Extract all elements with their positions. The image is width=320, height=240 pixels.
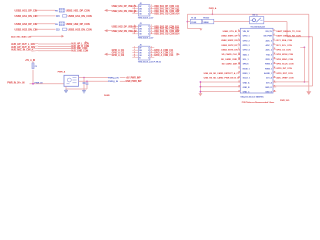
svg-text:2: 2 — [148, 29, 149, 31]
ground — [83, 89, 85, 90]
svg-text:TXD_0: TXD_0 — [266, 54, 273, 56]
svg-text:14: 14 — [274, 57, 276, 60]
svg-text:17: 17 — [238, 67, 240, 69]
svg-text:6: 6 — [274, 39, 275, 41]
svg-text:3: 3 — [134, 51, 135, 53]
svg-text:DGND: DGND — [104, 95, 110, 97]
svg-text:UART_DEBUG_TX_CON: UART_DEBUG_TX_CON — [276, 30, 300, 33]
capacitor C2 — [86, 81, 88, 83]
svg-text:VB: VB — [139, 52, 142, 54]
svg-text:GD: GD — [139, 55, 142, 57]
svg-text:FB: FB — [55, 24, 58, 26]
svg-text:2: 2 — [151, 49, 152, 51]
svg-text:USB2_SSTX_DP_C: USB2_SSTX_DP_C — [221, 45, 240, 47]
svg-text:GD: GD — [139, 13, 142, 15]
svg-text:PWR_5V0: PWR_5V0 — [280, 100, 290, 102]
svg-text:GND_B: GND_B — [243, 87, 250, 89]
wire pin stub left — [132, 47, 138, 49]
wire gnd bus rows — [200, 81, 240, 83]
svg-text:RXD_0: RXD_0 — [266, 59, 273, 61]
svg-text:8: 8 — [274, 44, 275, 46]
svg-text:SPI0_SCLK_CON: SPI0_SCLK_CON — [276, 64, 293, 66]
connector J4 — [240, 28, 273, 93]
svg-text:USB2_HS2_DN_CIN: USB2_HS2_DN_CIN — [15, 28, 38, 32]
svg-text:PWR_IN_5V+_IN: PWR_IN_5V+_IN — [7, 83, 25, 85]
svg-text:EN_PWR: EN_PWR — [264, 36, 273, 38]
junction — [32, 83, 34, 85]
wire pin stub right — [150, 52, 154, 54]
svg-text:USB2_HS2_DN_CON: USB2_HS2_DN_CON — [68, 28, 92, 32]
port right — [175, 9, 177, 11]
svg-text:FB: FB — [55, 10, 58, 12]
wire rail A top — [187, 13, 308, 15]
svg-text:PWM_1: PWM_1 — [265, 68, 273, 70]
svg-text:USB2_SSRX_DP_C: USB2_SSRX_DP_C — [221, 36, 240, 38]
svg-text:GPIO_2: GPIO_2 — [243, 40, 251, 42]
svg-text:SPI0_MOSI_CON: SPI0_MOSI_CON — [276, 54, 293, 56]
svg-text:1: 1 — [148, 48, 149, 50]
svg-text:28: 28 — [274, 90, 276, 92]
svg-text:USB2_HS1_DP_CIN: USB2_HS1_DP_CIN — [15, 9, 38, 13]
wire switch out — [264, 21, 287, 23]
svg-text:5: 5 — [134, 56, 135, 58]
svg-text:115: 115 — [56, 15, 60, 18]
svg-text:20: 20 — [274, 72, 276, 74]
wire pin stub right — [150, 13, 154, 15]
svg-text:BEAD: BEAD — [204, 21, 210, 24]
svg-text:GPIO_RST_CON: GPIO_RST_CON — [276, 73, 293, 75]
svg-text:3: 3 — [151, 51, 152, 53]
svg-text:PWR(+)_IN: PWR(+)_IN — [108, 77, 119, 79]
svg-text:1: 1 — [151, 46, 152, 48]
svg-text:USB2_HS2_DP_USB_P2: USB2_HS2_DP_USB_P2 — [112, 26, 137, 28]
svg-text:PWR_5V: PWR_5V — [35, 82, 44, 84]
svg-text:GPIO_INT_CON: GPIO_INT_CON — [276, 68, 292, 70]
svg-text:DM: DM — [139, 50, 142, 52]
svg-text:ADC_VREF_CON: ADC_VREF_CON — [276, 77, 293, 80]
node GND_PWR_IN — [120, 80, 125, 82]
wire pin stub right — [150, 28, 154, 30]
svg-text:F2: F2 — [35, 66, 37, 68]
port left — [104, 9, 107, 12]
wire 3V3 stub — [300, 46, 304, 48]
svg-text:3: 3 — [148, 11, 149, 13]
svg-text:1: 1 — [151, 5, 152, 7]
junction fuse tap — [187, 21, 189, 23]
svg-text:DP: DP — [139, 6, 142, 8]
wire 3V3 drop — [303, 47, 305, 82]
svg-text:USB2_HS1_DN_USB_N1: USB2_HS1_DN_USB_N1 — [112, 11, 138, 13]
svg-text:PWR(-)_IN: PWR(-)_IN — [108, 81, 118, 83]
svg-text:DM: DM — [139, 29, 142, 31]
svg-text:10: 10 — [274, 48, 276, 50]
svg-text:2: 2 — [148, 50, 149, 52]
svg-text:USB_SH2_DN_CON_B12: USB_SH2_DN_CON_B12 — [154, 29, 180, 31]
wire pin stub left — [132, 28, 138, 30]
node AUD port — [85, 41, 88, 43]
wire fuse to main — [32, 70, 34, 84]
svg-text:19: 19 — [238, 72, 240, 74]
wire rail B down2 — [312, 37, 314, 86]
svg-text:UART_DEBUG_RX_CON: UART_DEBUG_RX_CON — [276, 35, 301, 38]
svg-text:FUSE: FUSE — [191, 22, 197, 24]
svg-text:MOSI_1: MOSI_1 — [243, 68, 251, 70]
svg-text:5: 5 — [151, 56, 152, 58]
svg-text:VB: VB — [139, 11, 142, 13]
wire pin stub left — [132, 25, 138, 27]
svg-text:VIN_5V: VIN_5V — [243, 31, 250, 33]
svg-text:3: 3 — [151, 10, 152, 12]
svg-text:SPI0_CS_CON: SPI0_CS_CON — [276, 50, 291, 52]
svg-text:GND_D: GND_D — [265, 87, 272, 89]
wire pin stub right — [150, 10, 154, 12]
wire PWR_A drop — [211, 10, 213, 15]
svg-text:22: 22 — [274, 76, 276, 78]
svg-text:SD_CARD_CMD_CI: SD_CARD_CMD_CI — [221, 58, 241, 61]
svg-text:GPIO_3: GPIO_3 — [243, 45, 251, 47]
svg-text:1: 1 — [148, 26, 149, 28]
svg-text:VB: VB — [139, 31, 142, 33]
wire left drop — [186, 14, 188, 28]
svg-text:TSM-105-01-L-DV-P-TR-05: TSM-105-01-L-DV-P-TR-05 — [138, 62, 162, 64]
wire pin stub left — [132, 8, 138, 10]
wire to fuse — [187, 21, 190, 23]
wire pin stub right — [150, 30, 154, 32]
svg-text:F1 2A: F1 2A — [191, 16, 197, 19]
wire pin stub right — [150, 25, 154, 27]
svg-text:I2C1_SDA_CON: I2C1_SDA_CON — [276, 39, 292, 42]
junction rail cross — [308, 36, 310, 38]
svg-text:USB2_HS1_DN_CIN: USB2_HS1_DN_CIN — [15, 14, 38, 18]
svg-text:USB_HS_SD_CARD_DETECT_A_CI: USB_HS_SD_CARD_DETECT_A_CI — [204, 72, 239, 75]
svg-text:ID: ID — [139, 57, 141, 59]
wire pin stub left — [132, 57, 138, 59]
svg-text:GND_C: GND_C — [243, 92, 250, 94]
svg-text:SPICS: SPICS — [243, 64, 249, 66]
svg-text:PWR_A: PWR_A — [58, 71, 66, 74]
port right — [175, 53, 177, 55]
svg-text:GPIO_A_CI1: GPIO_A_CI1 — [112, 49, 125, 52]
svg-text:USB2_HS1_DP_CON: USB2_HS1_DP_CON — [66, 9, 90, 13]
svg-text:DP: DP — [139, 48, 142, 50]
terminal gnd bus — [198, 93, 202, 96]
wire pin stub left — [132, 10, 138, 12]
svg-text:DP: DP — [139, 26, 142, 28]
wire pin stub left — [132, 52, 138, 54]
svg-text:USB2_HS1_DN_CON: USB2_HS1_DN_CON — [68, 14, 92, 18]
svg-text:24: 24 — [274, 80, 276, 83]
svg-text:MISO_1: MISO_1 — [243, 73, 251, 75]
fuse F2 — [32, 62, 34, 64]
wire vout bottom — [79, 80, 109, 82]
svg-text:AUD_MIC_BIAS_CIN: AUD_MIC_BIAS_CIN — [11, 35, 32, 38]
svg-text:GND_PWR_INP: GND_PWR_INP — [126, 81, 143, 83]
svg-text:GPIO_1: GPIO_1 — [243, 36, 251, 38]
junction 3V3 — [304, 46, 306, 48]
svg-text:1: 1 — [134, 46, 135, 48]
wire pin stub left — [132, 30, 138, 32]
wire GND to rail B — [273, 85, 313, 87]
wire pin stub right — [150, 8, 154, 10]
svg-text:USB2_HS1_DP_USB_P1: USB2_HS1_DP_USB_P1 — [112, 6, 137, 8]
svg-text:TSM-104-01-L-DV: TSM-104-01-L-DV — [138, 17, 154, 20]
svg-text:VIN_5V: VIN_5V — [265, 31, 272, 33]
svg-text:SD_CARD_DAT_CI: SD_CARD_DAT_CI — [222, 63, 241, 66]
wire to switch — [214, 21, 250, 23]
svg-text:2: 2 — [151, 28, 152, 30]
junction row12 — [304, 81, 306, 83]
bus wires — [38, 43, 71, 45]
svg-text:3: 3 — [148, 52, 149, 54]
svg-text:2: 2 — [274, 30, 275, 32]
wire pin stub left — [132, 33, 138, 35]
svg-text:PCB Thickness Recommended 1.6m: PCB Thickness Recommended 1.6mm — [242, 102, 275, 104]
svg-text:GD: GD — [139, 34, 142, 36]
capacitor C1 — [83, 77, 85, 79]
wire pin stub right — [150, 33, 154, 35]
svg-text:PWR_A: PWR_A — [209, 7, 217, 10]
svg-text:SSQ-110-03-G-D SAMTEC: SSQ-110-03-G-D SAMTEC — [240, 95, 264, 98]
svg-text:USB2_HS2_DN_USB_N2: USB2_HS2_DN_USB_N2 — [112, 31, 138, 33]
node MIC end — [62, 35, 65, 38]
wire gnd bottom — [65, 86, 67, 89]
wire vout top — [79, 77, 109, 79]
svg-text:USB_SH1_DP_CON_A11: USB_SH1_DP_CON_A11 — [154, 5, 180, 8]
wire between — [201, 21, 204, 23]
wire pin stub left — [132, 54, 138, 56]
wire pin stub left — [132, 13, 138, 15]
bus entries — [32, 43, 39, 46]
wire 5V0 to rail A — [273, 81, 309, 83]
wire pin stub right — [150, 57, 154, 59]
svg-text:USB_SH2_DP_CON_B11: USB_SH2_DP_CON_B11 — [154, 26, 180, 28]
svg-text:115: 115 — [56, 29, 60, 32]
svg-text:USB2_SSTX_DN_C: USB2_SSTX_DN_C — [221, 50, 240, 52]
svg-text:12: 12 — [274, 53, 276, 55]
svg-text:3: 3 — [151, 30, 152, 32]
node +5V_PWR_IN — [120, 77, 125, 79]
svg-text:2: 2 — [134, 49, 135, 51]
svg-text:3: 3 — [148, 31, 149, 33]
wire bottom stub — [187, 28, 201, 30]
svg-text:USB2_HS2_DP_CIN: USB2_HS2_DP_CIN — [15, 22, 38, 26]
svg-text:AUD_MIC_IN_CIN_A: AUD_MIC_IN_CIN_A — [11, 48, 34, 51]
wire rail A down — [308, 14, 310, 91]
svg-text:USB2_HS2_DP_CON: USB2_HS2_DP_CON — [66, 22, 90, 26]
svg-text:TSM-104-01-L-DV: TSM-104-01-L-DV — [138, 37, 154, 40]
svg-text:USB2_OTG_ID_CI: USB2_OTG_ID_CI — [223, 31, 241, 33]
junction — [212, 14, 214, 16]
wire pin stub right — [150, 54, 154, 56]
port right — [175, 30, 177, 32]
svg-text:2: 2 — [148, 9, 149, 11]
svg-text:DM: DM — [139, 9, 142, 11]
svg-text:USB_HS_SD_CARD_PWR_EN_B_CI: USB_HS_SD_CARD_PWR_EN_B_CI — [204, 77, 240, 80]
svg-text:I2C1_SCL_CON: I2C1_SCL_CON — [276, 45, 292, 47]
terminal rail A — [306, 91, 311, 95]
svg-text:1: 1 — [148, 6, 149, 8]
svg-text:SCLK_1: SCLK_1 — [243, 78, 251, 80]
svg-text:2: 2 — [151, 7, 152, 9]
svg-text:USB_SH2_VB_CON_B13: USB_SH2_VB_CON_B13 — [154, 31, 180, 33]
svg-text:SCL_1: SCL_1 — [243, 59, 250, 61]
wire main 5V — [30, 83, 65, 85]
wire pin stub left — [132, 49, 138, 51]
wire gnd bus vertical — [199, 82, 201, 93]
wire pin stub right — [150, 47, 154, 49]
svg-text:5: 5 — [148, 57, 149, 59]
port left — [104, 53, 107, 56]
svg-text:SW_A: SW_A — [252, 13, 258, 16]
terminal down — [199, 29, 202, 31]
svg-text:SD_CARD_CLK_CI: SD_CARD_CLK_CI — [221, 53, 240, 56]
svg-text:+5V_A_IN: +5V_A_IN — [25, 59, 35, 62]
ground — [65, 89, 67, 90]
wire rail B jog — [287, 36, 313, 38]
svg-text:GPIO_A_CON_C11: GPIO_A_CON_C11 — [154, 49, 174, 52]
svg-text:PWM_0: PWM_0 — [265, 64, 273, 66]
wire pin stub left — [132, 5, 138, 7]
svg-text:+5V_PWR_INP: +5V_PWR_INP — [126, 77, 142, 79]
wire rail B down1 — [286, 22, 288, 37]
wire pin stub right — [150, 49, 154, 51]
svg-text:GND_E: GND_E — [265, 92, 272, 94]
svg-text:SPI0_MISO_CON: SPI0_MISO_CON — [276, 59, 293, 61]
svg-text:1: 1 — [151, 25, 152, 27]
svg-text:18: 18 — [274, 67, 276, 69]
port left — [104, 29, 107, 32]
wire pin stub right — [150, 5, 154, 7]
svg-text:16: 16 — [274, 62, 276, 64]
svg-text:USB2_SSRX_DN_C: USB2_SSRX_DN_C — [221, 40, 241, 42]
